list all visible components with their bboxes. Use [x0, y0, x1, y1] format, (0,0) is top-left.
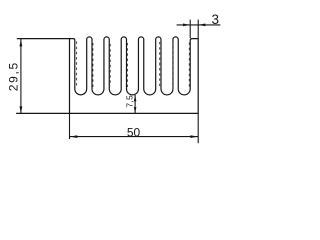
- dash fin6: [159, 42, 161, 87]
- dash slot2: [92, 43, 94, 87]
- arrow right-pointing 3: [183, 24, 190, 27]
- svg-text:7,5: 7,5: [124, 95, 134, 108]
- dash slot7: [188, 43, 190, 88]
- dimension 29,5 line: [20, 39, 22, 114]
- dash slot1: [76, 42, 78, 88]
- svg-text:3: 3: [212, 12, 220, 27]
- left edge of profile: [69, 39, 71, 114]
- arrow up 7,5: [134, 95, 137, 101]
- extension line right 3: [197, 20, 199, 39]
- arrow down 29,5: [20, 106, 23, 113]
- arrow down 7,5: [134, 107, 137, 113]
- heatsink profile outline with fins: [16, 37, 198, 114]
- dash slot4: [126, 43, 128, 87]
- svg-text:50: 50: [127, 126, 141, 140]
- dimension 3 line: [177, 24, 221, 26]
- extension line left 50: [69, 113, 71, 139]
- hidden serration dashes in fin slots: [77, 42, 190, 88]
- svg-text:29,5: 29,5: [6, 61, 20, 91]
- arrow up 29,5: [20, 39, 23, 46]
- dash slot3: [109, 44, 111, 86]
- dimension 50 line: [70, 136, 199, 138]
- dimension 7,5 line: [134, 95, 136, 113]
- extension line right 50: [197, 113, 199, 143]
- dash slot6: [172, 44, 174, 88]
- arrow left 50: [70, 135, 77, 138]
- extension line left 3: [189, 20, 191, 39]
- arrow left-pointing 3: [198, 24, 205, 27]
- arrow right 50: [190, 135, 197, 138]
